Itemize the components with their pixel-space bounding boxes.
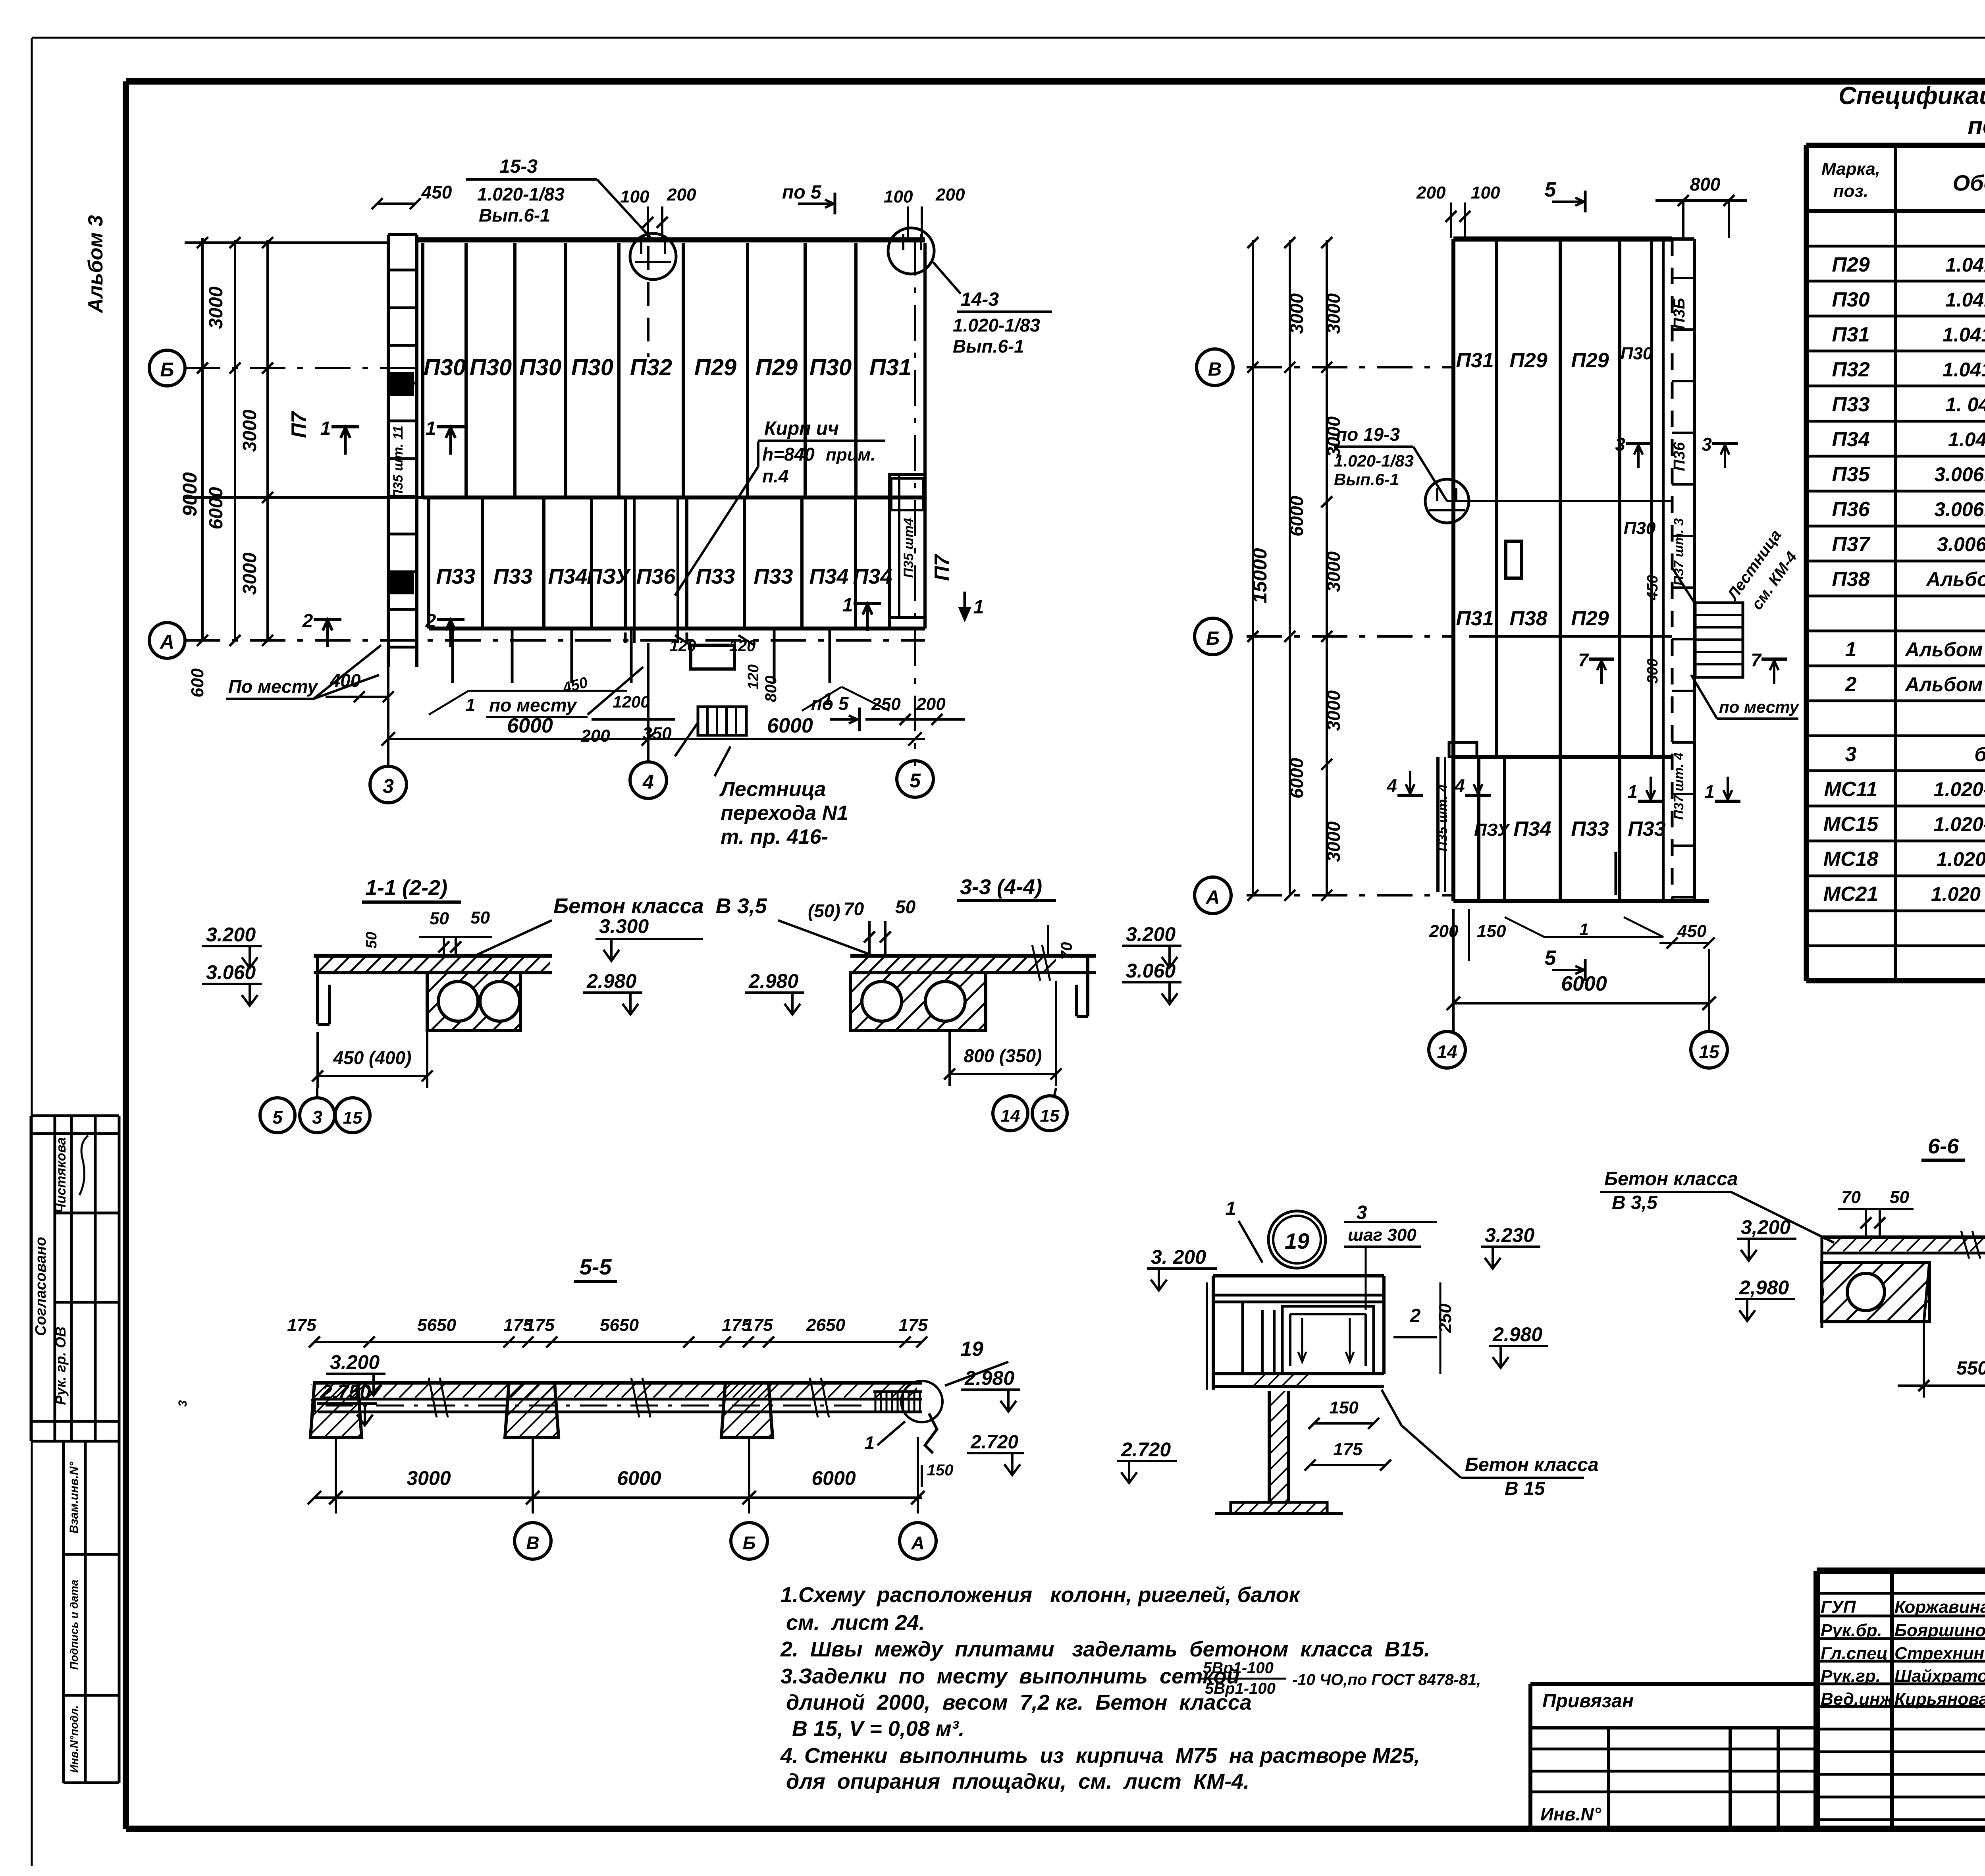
svg-text:2,980: 2,980 xyxy=(1739,1276,1789,1299)
svg-text:3.200: 3.200 xyxy=(206,924,256,946)
svg-text:Б: Б xyxy=(1206,628,1220,649)
svg-text:для опирания площадки, см.: для опирания площадки, см. лист КМ-4. xyxy=(786,1770,1249,1793)
svg-text:1.041.1-2 Вып.5: 1.041.1-2 Вып.5 xyxy=(1948,428,1985,451)
svg-text:П32: П32 xyxy=(1832,358,1869,381)
svg-text:Марка,: Марка, xyxy=(1821,159,1880,179)
svg-text:по месту: по месту xyxy=(1719,698,1800,716)
svg-text:Согласовано: Согласовано xyxy=(33,1237,49,1336)
svg-text:Б: Б xyxy=(743,1533,756,1553)
svg-text:800: 800 xyxy=(762,676,780,702)
svg-text:-10 ЧО,по ГОСТ 8478-81,: -10 ЧО,по ГОСТ 8478-81, xyxy=(1292,1671,1481,1689)
svg-text:3000: 3000 xyxy=(239,409,260,452)
svg-text:4: 4 xyxy=(1454,775,1465,796)
svg-text:поз.: поз. xyxy=(1833,181,1868,201)
svg-text:Вып.6-1: Вып.6-1 xyxy=(953,336,1024,357)
svg-text:2.980: 2.980 xyxy=(1492,1323,1542,1346)
svg-text:П34: П34 xyxy=(809,565,849,588)
svg-text:15: 15 xyxy=(1040,1106,1060,1126)
svg-text:3.060: 3.060 xyxy=(1126,960,1176,982)
svg-text:3000: 3000 xyxy=(1323,821,1344,862)
svg-text:П33: П33 xyxy=(696,565,735,588)
svg-text:3.200: 3.200 xyxy=(330,1351,380,1373)
svg-text:1.020- 1/83 Вып.6-1: 1.020- 1/83 Вып.6-1 xyxy=(1934,813,1985,835)
svg-text:П31: П31 xyxy=(1832,323,1869,346)
svg-text:3: 3 xyxy=(176,1400,189,1407)
svg-text:h=840: h=840 xyxy=(762,444,815,465)
svg-text:200: 200 xyxy=(580,726,610,746)
svg-text:2.980: 2.980 xyxy=(748,970,798,992)
svg-text:3.060: 3.060 xyxy=(206,961,256,983)
svg-text:по месту: по месту xyxy=(489,695,577,715)
svg-text:19: 19 xyxy=(960,1338,983,1361)
svg-text:В 3,5: В 3,5 xyxy=(1612,1192,1658,1213)
svg-text:3.Заделки по месту выполнит: 3.Заделки по месту выполнить сеткой xyxy=(781,1664,1240,1688)
svg-text:6000: 6000 xyxy=(617,1467,661,1489)
svg-text:2.980: 2.980 xyxy=(964,1367,1014,1389)
svg-text:П34: П34 xyxy=(1513,817,1551,841)
svg-text:П38: П38 xyxy=(1509,607,1547,630)
svg-text:50: 50 xyxy=(1890,1188,1909,1207)
svg-text:5: 5 xyxy=(1545,947,1557,970)
svg-text:Стрехнин: Стрехнин xyxy=(1894,1644,1984,1663)
svg-text:450: 450 xyxy=(1644,575,1661,600)
svg-text:п.4: п.4 xyxy=(762,466,788,486)
svg-text:П36: П36 xyxy=(636,565,676,588)
svg-text:200: 200 xyxy=(1416,183,1446,202)
svg-text:100: 100 xyxy=(620,187,649,206)
svg-text:П3Б: П3Б xyxy=(1671,298,1688,329)
svg-text:МС21: МС21 xyxy=(1823,883,1879,906)
svg-text:3000: 3000 xyxy=(206,286,227,329)
svg-text:175: 175 xyxy=(525,1315,555,1335)
svg-text:3: 3 xyxy=(1702,434,1712,455)
svg-text:4. Стенки выполнить из кирп: 4. Стенки выполнить из кирпича М75 на ра… xyxy=(780,1744,1420,1768)
svg-text:по 19-3: по 19-3 xyxy=(1336,424,1400,445)
svg-text:В: В xyxy=(1208,359,1222,380)
svg-text:1.041.1-2 Вып. 1: 1.041.1-2 Вып. 1 xyxy=(1945,289,1985,311)
svg-text:1: 1 xyxy=(320,418,331,439)
svg-text:1: 1 xyxy=(1579,920,1588,939)
svg-text:Взам.инв.N°: Взам.инв.N° xyxy=(67,1461,81,1534)
svg-text:3000: 3000 xyxy=(1323,690,1344,731)
svg-text:3.230: 3.230 xyxy=(1485,1224,1534,1246)
svg-text:длиной 2000, весом 7,2 кг.: длиной 2000, весом 7,2 кг. Бетон класса xyxy=(786,1691,1252,1714)
svg-text:Бетон класса В 3,5: Бетон класса В 3,5 xyxy=(553,894,767,918)
svg-text:7: 7 xyxy=(1578,650,1589,670)
svg-text:175: 175 xyxy=(898,1315,928,1335)
svg-text:перехода N1: перехода N1 xyxy=(721,802,848,825)
svg-text:1. 041.1-2 Вып.5: 1. 041.1-2 Вып.5 xyxy=(1945,393,1985,416)
svg-text:2: 2 xyxy=(1845,673,1857,696)
svg-text:Альбом 5 -КЖ.И.КР5,КР6: Альбом 5 -КЖ.И.КР5,КР6 xyxy=(1904,673,1985,696)
svg-text:Лестница: Лестница xyxy=(719,778,826,801)
svg-text:3000: 3000 xyxy=(1286,293,1307,334)
svg-text:3.006.1- 2.87 Вып.2: 3.006.1- 2.87 Вып.2 xyxy=(1934,463,1985,486)
svg-text:П33: П33 xyxy=(493,565,533,588)
svg-text:1200: 1200 xyxy=(613,692,649,711)
svg-text:Бетон класса: Бетон класса xyxy=(1604,1168,1738,1190)
svg-text:3: 3 xyxy=(1615,434,1625,455)
svg-text:П33: П33 xyxy=(436,565,476,588)
svg-text:15: 15 xyxy=(1699,1041,1720,1062)
svg-text:Вып.6-1: Вып.6-1 xyxy=(479,205,550,226)
svg-text:100: 100 xyxy=(1471,183,1500,202)
svg-text:Рук.гр.: Рук.гр. xyxy=(1821,1666,1881,1686)
svg-text:175: 175 xyxy=(744,1315,773,1335)
svg-text:П7: П7 xyxy=(931,554,954,581)
svg-text:П34: П34 xyxy=(548,565,588,588)
svg-text:5650: 5650 xyxy=(600,1315,639,1335)
svg-text:Привязан: Привязан xyxy=(1542,1691,1634,1712)
svg-text:П37: П37 xyxy=(1832,533,1870,556)
svg-text:400: 400 xyxy=(330,670,361,691)
svg-text:А: А xyxy=(911,1533,924,1553)
svg-text:П33: П33 xyxy=(754,565,793,588)
svg-text:15000: 15000 xyxy=(1249,548,1271,603)
svg-text:Чистякова: Чистякова xyxy=(54,1137,69,1213)
svg-text:П30: П30 xyxy=(809,355,852,380)
svg-text:70: 70 xyxy=(1058,942,1075,960)
svg-text:Б: Б xyxy=(160,359,174,381)
svg-text:По месту: По месту xyxy=(228,676,318,697)
svg-text:1.020-1/83: 1.020-1/83 xyxy=(477,184,565,204)
svg-text:1: 1 xyxy=(1627,781,1638,802)
svg-text:1: 1 xyxy=(466,695,475,715)
svg-text:без. черт.: без. черт. xyxy=(1974,743,1985,765)
svg-text:450: 450 xyxy=(1677,922,1707,941)
svg-text:2.720: 2.720 xyxy=(970,1432,1018,1453)
svg-text:200: 200 xyxy=(935,185,965,204)
svg-text:1.Схему расположения колонн: 1.Схему расположения колонн, ригелей, ба… xyxy=(781,1583,1301,1607)
svg-text:П30: П30 xyxy=(1621,344,1653,363)
svg-text:П31: П31 xyxy=(1456,349,1494,372)
svg-text:6-6: 6-6 xyxy=(1928,1134,1959,1158)
svg-text:В 15: В 15 xyxy=(1505,1478,1546,1499)
svg-text:5: 5 xyxy=(272,1107,283,1128)
svg-text:П35: П35 xyxy=(1832,463,1870,486)
svg-text:14: 14 xyxy=(1437,1041,1457,1062)
svg-text:600: 600 xyxy=(188,668,207,698)
svg-text:1: 1 xyxy=(1226,1198,1236,1219)
svg-text:П29: П29 xyxy=(1571,349,1609,372)
svg-text:П30: П30 xyxy=(1832,288,1869,311)
svg-text:П37 шт. 4: П37 шт. 4 xyxy=(1671,752,1686,820)
svg-text:Кирьянова: Кирьянова xyxy=(1894,1689,1985,1709)
svg-text:А: А xyxy=(159,631,174,653)
svg-text:3000: 3000 xyxy=(1323,551,1344,592)
svg-text:7: 7 xyxy=(1751,650,1762,670)
svg-text:6000: 6000 xyxy=(767,714,813,737)
svg-text:1: 1 xyxy=(823,689,833,709)
svg-text:3: 3 xyxy=(1845,743,1857,766)
svg-text:П29: П29 xyxy=(694,355,736,380)
svg-text:П32: П32 xyxy=(630,355,672,380)
svg-text:50: 50 xyxy=(470,908,490,927)
svg-text:3.006.1-2.87 Вып.2: 3.006.1-2.87 Вып.2 xyxy=(1937,533,1985,555)
svg-text:2.750: 2.750 xyxy=(321,1381,371,1403)
svg-text:Рук.бр.: Рук.бр. xyxy=(1821,1621,1882,1640)
svg-text:Коржавина: Коржавина xyxy=(1894,1597,1985,1617)
svg-text:450 (400): 450 (400) xyxy=(333,1047,412,1068)
svg-text:2650: 2650 xyxy=(806,1315,845,1335)
svg-text:1: 1 xyxy=(864,1433,875,1453)
svg-text:3000: 3000 xyxy=(1323,293,1344,334)
svg-text:450: 450 xyxy=(421,182,452,202)
svg-text:т. пр. 416-: т. пр. 416- xyxy=(721,825,828,848)
svg-text:300: 300 xyxy=(1644,658,1661,683)
svg-text:6000: 6000 xyxy=(811,1467,856,1489)
svg-text:П30: П30 xyxy=(470,355,512,380)
svg-text:П31: П31 xyxy=(869,355,912,380)
svg-text:3000: 3000 xyxy=(407,1467,451,1489)
svg-text:9000: 9000 xyxy=(179,472,201,516)
svg-text:50: 50 xyxy=(430,909,449,928)
svg-text:175: 175 xyxy=(287,1315,316,1335)
svg-text:МС11: МС11 xyxy=(1824,778,1878,801)
svg-text:15-3: 15-3 xyxy=(499,156,538,177)
svg-text:Бетон класса: Бетон класса xyxy=(1465,1454,1599,1475)
svg-text:1.020-1/83: 1.020-1/83 xyxy=(953,315,1040,335)
svg-text:П29: П29 xyxy=(1832,253,1869,276)
svg-text:П7: П7 xyxy=(287,411,310,438)
svg-text:Бояршинов: Бояршинов xyxy=(1894,1621,1985,1640)
svg-text:6000: 6000 xyxy=(206,487,227,529)
svg-text:150: 150 xyxy=(1329,1398,1359,1417)
svg-text:Спецификация к схеме распол: Спецификация к схеме расположения плит xyxy=(1839,82,1985,110)
svg-text:Инв.N°подл.: Инв.N°подл. xyxy=(68,1705,80,1773)
svg-text:50: 50 xyxy=(363,932,380,949)
svg-text:6000: 6000 xyxy=(1286,496,1307,536)
svg-text:П34: П34 xyxy=(853,565,892,588)
svg-text:200: 200 xyxy=(916,694,946,714)
svg-text:П29: П29 xyxy=(755,355,798,380)
svg-text:550: 550 xyxy=(1956,1358,1985,1379)
svg-text:150: 150 xyxy=(927,1461,954,1479)
svg-text:3.200: 3.200 xyxy=(1126,923,1176,945)
svg-text:5-5: 5-5 xyxy=(580,1254,612,1279)
svg-text:Обозначение: Обозначение xyxy=(1953,170,1985,195)
svg-text:см. лист 24.: см. лист 24. xyxy=(786,1611,925,1635)
svg-text:Альбом 5 -КЖ.И.П38: Альбом 5 -КЖ.И.П38 xyxy=(1925,568,1985,590)
svg-text:5: 5 xyxy=(910,769,921,792)
svg-text:5: 5 xyxy=(1545,178,1557,201)
svg-text:шаг 300: шаг 300 xyxy=(1348,1225,1416,1245)
svg-text:2.980: 2.980 xyxy=(586,970,636,992)
svg-text:прим.: прим. xyxy=(826,445,875,465)
svg-text:1.041.1- 2 Вып. 1: 1.041.1- 2 Вып. 1 xyxy=(1943,324,1985,346)
svg-text:1: 1 xyxy=(1704,781,1715,802)
svg-text:5Вр1-100: 5Вр1-100 xyxy=(1205,1680,1276,1697)
svg-text:1.041.1-2 Вып. 1: 1.041.1-2 Вып. 1 xyxy=(1945,254,1985,276)
svg-text:1.020- 1/83 Вып.6-1: 1.020- 1/83 Вып.6-1 xyxy=(1934,778,1985,800)
svg-text:П33: П33 xyxy=(1571,817,1609,841)
svg-text:П33: П33 xyxy=(1628,817,1665,841)
svg-text:П30: П30 xyxy=(519,355,561,380)
svg-text:В 15, V = 0,08 м³.: В 15, V = 0,08 м³. xyxy=(792,1717,965,1741)
svg-text:2. Швы между плитами заде: 2. Швы между плитами заделать бетоном кл… xyxy=(780,1637,1430,1661)
svg-text:3000: 3000 xyxy=(239,552,260,595)
svg-text:МС15: МС15 xyxy=(1823,813,1879,836)
svg-text:15: 15 xyxy=(343,1108,362,1128)
svg-text:Кирп ич: Кирп ич xyxy=(764,418,839,439)
svg-text:П37 шт. 3: П37 шт. 3 xyxy=(1671,518,1686,586)
svg-text:П31: П31 xyxy=(1456,607,1494,630)
svg-text:1: 1 xyxy=(973,597,984,618)
svg-text:Рук. гр. ОВ: Рук. гр. ОВ xyxy=(52,1327,69,1405)
svg-text:П33: П33 xyxy=(1832,393,1869,416)
svg-text:1.041.1- 2 Вып. 1: 1.041.1- 2 Вып. 1 xyxy=(1943,359,1985,381)
svg-text:3.006.1- 2.87 Вып.2: 3.006.1- 2.87 Вып.2 xyxy=(1934,498,1985,521)
svg-text:5Вр1-100: 5Вр1-100 xyxy=(1203,1659,1274,1677)
svg-text:1: 1 xyxy=(426,418,436,439)
svg-text:Шайхратов: Шайхратов xyxy=(1894,1666,1985,1686)
svg-text:4: 4 xyxy=(642,771,654,793)
svg-text:50: 50 xyxy=(895,897,916,917)
svg-text:Подпись и дата: Подпись и дата xyxy=(68,1580,80,1670)
svg-text:1: 1 xyxy=(842,595,853,616)
svg-text:Вып.6-1: Вып.6-1 xyxy=(1334,470,1399,489)
svg-text:2: 2 xyxy=(1410,1305,1421,1327)
svg-text:200: 200 xyxy=(667,185,696,204)
svg-text:3: 3 xyxy=(1357,1202,1367,1223)
svg-text:1.020 - 1/83 Вып.6-1: 1.020 - 1/83 Вып.6-1 xyxy=(1931,883,1985,905)
svg-text:П36: П36 xyxy=(1671,442,1688,471)
svg-text:П36: П36 xyxy=(1832,498,1870,521)
svg-text:Альбом 5 -КЖ.И.КР5,КР6: Альбом 5 -КЖ.И.КР5,КР6 xyxy=(1904,638,1985,661)
svg-text:Гл.спец: Гл.спец xyxy=(1821,1644,1888,1663)
svg-text:по 5: по 5 xyxy=(782,182,822,203)
svg-text:3: 3 xyxy=(312,1107,322,1128)
svg-text:2.720: 2.720 xyxy=(1121,1438,1171,1461)
svg-text:800 (350): 800 (350) xyxy=(964,1045,1042,1066)
svg-text:П30: П30 xyxy=(571,355,613,380)
svg-text:П34: П34 xyxy=(1832,428,1869,451)
svg-text:Альбом 3: Альбом 3 xyxy=(84,215,107,314)
svg-text:1-1 (2-2): 1-1 (2-2) xyxy=(365,876,447,900)
svg-text:А: А xyxy=(1206,887,1220,908)
svg-text:350: 350 xyxy=(642,724,672,743)
svg-text:1: 1 xyxy=(1845,638,1857,661)
svg-text:14: 14 xyxy=(1001,1106,1020,1126)
svg-text:800: 800 xyxy=(1690,174,1721,195)
svg-text:5650: 5650 xyxy=(417,1315,456,1335)
svg-text:Инв.N°: Инв.N° xyxy=(1540,1804,1601,1824)
svg-text:МС18: МС18 xyxy=(1823,848,1879,871)
svg-text:3-3 (4-4): 3-3 (4-4) xyxy=(960,875,1042,899)
svg-text:19: 19 xyxy=(1285,1228,1309,1253)
svg-text:П29: П29 xyxy=(1571,607,1609,630)
svg-text:ПЗУ: ПЗУ xyxy=(1474,820,1510,840)
svg-text:Вед.инж: Вед.инж xyxy=(1821,1689,1894,1709)
svg-text:70: 70 xyxy=(844,898,864,919)
svg-text:14-3: 14-3 xyxy=(961,289,999,310)
svg-text:250: 250 xyxy=(1436,1303,1455,1333)
svg-text:4: 4 xyxy=(1386,775,1397,796)
svg-text:3. 200: 3. 200 xyxy=(1151,1246,1206,1268)
svg-text:П38: П38 xyxy=(1832,568,1869,591)
svg-text:П35 шт. 11: П35 шт. 11 xyxy=(391,426,406,499)
svg-text:П30: П30 xyxy=(1624,519,1656,538)
svg-text:100: 100 xyxy=(884,187,913,206)
svg-text:перекрытия Венткамер: перекрытия Венткамер xyxy=(1968,112,1985,140)
svg-text:3: 3 xyxy=(383,775,394,797)
svg-text:3,200: 3,200 xyxy=(1741,1216,1790,1238)
svg-text:3.300: 3.300 xyxy=(599,915,649,937)
svg-text:(50): (50) xyxy=(808,900,840,921)
svg-text:ГУП: ГУП xyxy=(1821,1597,1856,1617)
svg-text:120: 120 xyxy=(745,664,762,689)
svg-text:150: 150 xyxy=(1477,922,1506,941)
svg-text:В: В xyxy=(526,1533,539,1553)
svg-text:6000: 6000 xyxy=(1286,758,1307,798)
svg-text:П30: П30 xyxy=(424,355,466,380)
svg-text:70: 70 xyxy=(1841,1188,1861,1207)
svg-text:П29: П29 xyxy=(1509,349,1547,372)
svg-text:1.020-1/83: 1.020-1/83 xyxy=(1334,451,1414,470)
svg-text:1.020-1/83 Вып.6-1: 1.020-1/83 Вып.6-1 xyxy=(1937,848,1985,870)
svg-text:175: 175 xyxy=(1333,1440,1363,1459)
svg-text:2: 2 xyxy=(425,611,436,632)
svg-text:2: 2 xyxy=(302,611,313,632)
